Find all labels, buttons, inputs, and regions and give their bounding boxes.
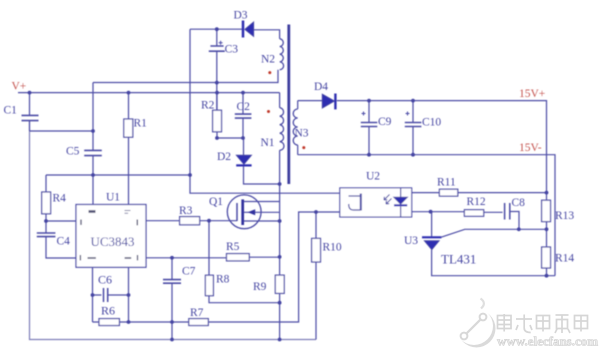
svg-text:R4: R4 xyxy=(53,193,67,205)
svg-text:R10: R10 xyxy=(323,242,342,254)
wire R4/C4 to U1 left pin xyxy=(46,220,76,222)
wire R2-C2 bottom link xyxy=(217,137,243,139)
svg-text:R8: R8 xyxy=(216,274,230,286)
svg-text:C6: C6 xyxy=(98,273,112,287)
transformer core xyxy=(287,25,290,185)
svg-text:R11: R11 xyxy=(437,177,456,189)
capacitor C5 xyxy=(84,150,102,155)
resistor R6 xyxy=(93,319,129,326)
wire secondary top rail to 15V+ xyxy=(298,101,547,201)
resistor R10 xyxy=(312,212,321,340)
wire secondary bottom rail xyxy=(298,155,555,276)
wire U1 COMP column x92.5 xyxy=(92,267,94,322)
node N2 polarity dot xyxy=(268,71,271,74)
winding N2 xyxy=(280,39,284,70)
wire C1-to-aux node y131 xyxy=(30,130,94,132)
svg-text:N3: N3 xyxy=(295,128,309,140)
svg-text:D3: D3 xyxy=(234,10,248,22)
svg-text:C5: C5 xyxy=(66,146,80,158)
svg-text:U2: U2 xyxy=(366,171,380,183)
svg-text:R9: R9 xyxy=(253,281,267,293)
wire ground row y322 to U2 bottom-left pin xyxy=(129,212,340,322)
svg-text:C4: C4 xyxy=(57,236,71,248)
resistor R11 xyxy=(412,189,547,196)
diode D2 xyxy=(236,138,279,184)
diode D4 xyxy=(322,94,335,110)
svg-text:www.elecfans.com: www.elecfans.com xyxy=(497,334,598,349)
winding N3 xyxy=(293,101,298,155)
node N3 polarity dot xyxy=(302,146,305,149)
wire line A (N2 return) xyxy=(93,70,278,83)
capacitor C9 xyxy=(361,101,378,155)
wire clamp top y29 xyxy=(190,29,280,39)
svg-text:N1: N1 xyxy=(261,137,275,149)
svg-text:UC3843: UC3843 xyxy=(91,234,135,249)
watermark logo elecfans xyxy=(455,299,496,348)
shunt regulator U3 TL431 xyxy=(422,212,555,276)
svg-text:V+: V+ xyxy=(12,81,27,93)
diode D3 xyxy=(243,21,254,38)
capacitor C1 xyxy=(22,93,39,131)
capacitor C10 xyxy=(405,101,422,155)
resistor R2 xyxy=(213,93,222,138)
winding N1 xyxy=(280,108,284,151)
svg-text:C8: C8 xyxy=(512,197,526,209)
capacitor C3 xyxy=(209,29,225,110)
svg-text:R3: R3 xyxy=(179,205,193,217)
wire left border and bottom ground border xyxy=(30,121,317,340)
wire U1 GND column x128.5 xyxy=(128,267,130,322)
svg-text:U1: U1 xyxy=(106,192,120,204)
wire drain/source column x280 xyxy=(279,150,281,339)
op-amp U1 UC3843 box xyxy=(76,205,146,268)
capacitor C4 xyxy=(37,221,76,258)
resistor R13 xyxy=(542,200,551,229)
svg-text:C3: C3 xyxy=(225,44,239,56)
resistor R1 xyxy=(124,93,133,205)
svg-text:D4: D4 xyxy=(314,81,328,93)
capacitor C2 xyxy=(235,93,252,138)
svg-text:R6: R6 xyxy=(101,304,115,318)
wire V+ into N1 top xyxy=(279,93,281,108)
resistor R14 xyxy=(542,229,551,275)
transistor Q1 xyxy=(227,195,279,229)
svg-text:R14: R14 xyxy=(555,253,574,265)
svg-text:TL431: TL431 xyxy=(441,252,476,267)
svg-text:N2: N2 xyxy=(261,54,275,66)
resistor R5 xyxy=(146,254,280,261)
optocoupler U2 xyxy=(340,188,412,217)
resistor R4 xyxy=(42,175,51,221)
svg-text:R7: R7 xyxy=(190,307,204,319)
svg-text:C9: C9 xyxy=(378,116,392,128)
svg-text:15V-: 15V- xyxy=(519,142,542,154)
resistor R7 xyxy=(189,319,209,326)
svg-text:C10: C10 xyxy=(422,117,441,129)
wire aux column x93 (line A to C5 to U1 pin8) xyxy=(92,83,94,205)
resistor R8 xyxy=(205,221,279,303)
svg-text:R2: R2 xyxy=(201,100,215,112)
capacitor C6 xyxy=(93,288,129,302)
svg-text:C2: C2 xyxy=(237,101,251,113)
capacitor C7 xyxy=(163,258,181,340)
wire clamp column x190 and feedback row y193 to U2 xyxy=(190,29,340,193)
svg-text:R5: R5 xyxy=(226,241,240,253)
svg-text:R1: R1 xyxy=(134,118,148,130)
svg-text:C1: C1 xyxy=(4,105,18,117)
wire V+ rail (line B) xyxy=(18,92,280,94)
resistor R9 xyxy=(275,275,284,293)
svg-text:R13: R13 xyxy=(555,210,574,222)
svg-text:15V+: 15V+ xyxy=(519,88,545,100)
wire VREF row y175 xyxy=(46,174,190,176)
resistor R12 xyxy=(412,210,503,217)
capacitor C8 xyxy=(505,203,519,229)
svg-text:R12: R12 xyxy=(467,196,486,208)
node N1 polarity dot xyxy=(267,110,270,113)
svg-text:C7: C7 xyxy=(182,266,196,278)
svg-text:U3: U3 xyxy=(404,235,418,247)
watermark text xyxy=(497,314,598,349)
svg-text:Q1: Q1 xyxy=(209,196,223,208)
svg-text:D2: D2 xyxy=(217,151,231,163)
resistor R3 xyxy=(146,217,237,225)
